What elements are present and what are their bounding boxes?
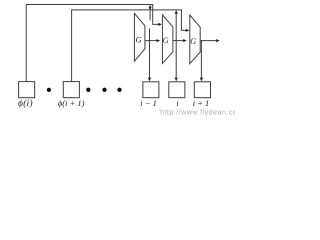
svg-text:http://www.flydean.com: http://www.flydean.com (160, 107, 235, 116)
svg-text:ϕ(i + 1): ϕ(i + 1) (58, 98, 85, 108)
svg-text:i − 1: i − 1 (140, 98, 157, 108)
svg-text:G: G (163, 35, 169, 45)
svg-text:G: G (190, 36, 196, 46)
svg-text:i: i (176, 98, 179, 108)
svg-text:ϕ(i): ϕ(i) (18, 98, 33, 108)
svg-text:i + 1: i + 1 (193, 98, 210, 108)
svg-text:G: G (136, 34, 142, 44)
